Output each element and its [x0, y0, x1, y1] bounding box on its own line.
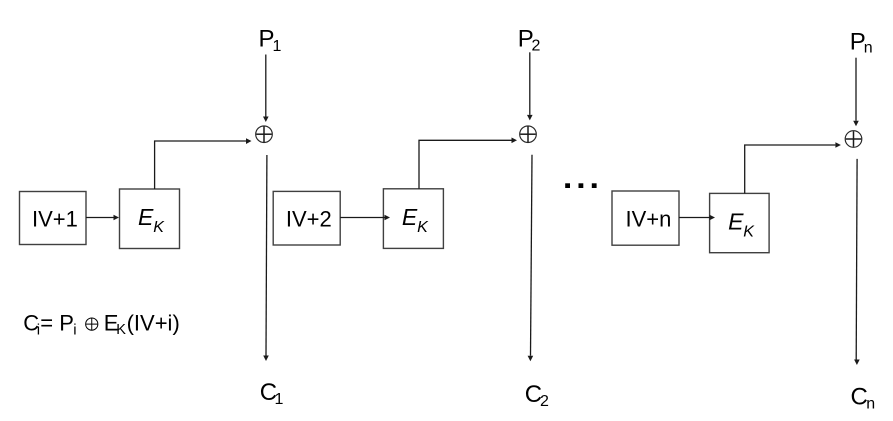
xor X2 [520, 126, 537, 143]
svg-text:(IV+i): (IV+i) [127, 311, 180, 336]
wire E_K U2 to XOR2 [419, 138, 517, 189]
svg-text:IV+1: IV+1 [32, 207, 78, 232]
wire IV+1 to E_K [86, 215, 119, 221]
svg-text:1: 1 [275, 391, 284, 408]
svg-text:E: E [138, 204, 154, 230]
wire XOR3 to Cn [854, 159, 860, 365]
svg-text:K: K [743, 223, 755, 240]
xor glyph in formula [86, 318, 98, 330]
label E_K U2 [402, 204, 429, 236]
box E_K U3 [710, 193, 770, 252]
wire P1 to XOR1 [263, 55, 269, 123]
wire P2 to XOR2 [527, 52, 533, 120]
label C1 [260, 379, 284, 408]
box IV+n [612, 191, 679, 245]
ellipsis dots [565, 183, 596, 188]
svg-text:IV+2: IV+2 [286, 207, 332, 232]
svg-text:1: 1 [273, 38, 282, 55]
xor X1 [256, 126, 273, 143]
label P2 [518, 25, 541, 54]
svg-text:i: i [73, 322, 76, 339]
svg-text:IV+n: IV+n [625, 207, 671, 232]
wire XOR2 to C2 [528, 155, 534, 362]
svg-text:2: 2 [532, 38, 541, 55]
svg-text:E: E [728, 208, 744, 234]
svg-text:K: K [417, 219, 429, 236]
svg-text:= P: = P [40, 311, 74, 336]
box IV+2 [273, 191, 340, 245]
label Pn [850, 28, 873, 56]
svg-text:K: K [153, 219, 165, 236]
wire Pn to XOR3 [853, 58, 859, 127]
svg-text:E: E [402, 204, 418, 230]
box E_K U1 [120, 189, 180, 249]
label E_K U3 [728, 208, 755, 240]
wire E_K U3 to XOR3 [745, 142, 841, 193]
label E_K U1 [138, 204, 165, 236]
xor X3 [845, 131, 862, 148]
wire E_K U1 to XOR1 [155, 138, 252, 189]
wire IV+2 to E_K [340, 215, 390, 221]
label C2 [525, 381, 549, 410]
wire XOR1 to C1 [263, 155, 269, 361]
svg-text:2: 2 [540, 393, 549, 410]
box E_K U2 [383, 189, 443, 249]
label Cn [851, 384, 876, 413]
formula C_i = P_i xor E_K(IV+i) [23, 311, 179, 339]
svg-text:K: K [116, 322, 126, 338]
box IV+1 [20, 192, 87, 245]
wire IV+n to E_K [679, 215, 715, 221]
svg-text:n: n [864, 39, 873, 56]
label P1 [259, 26, 282, 55]
svg-text:n: n [866, 395, 875, 412]
